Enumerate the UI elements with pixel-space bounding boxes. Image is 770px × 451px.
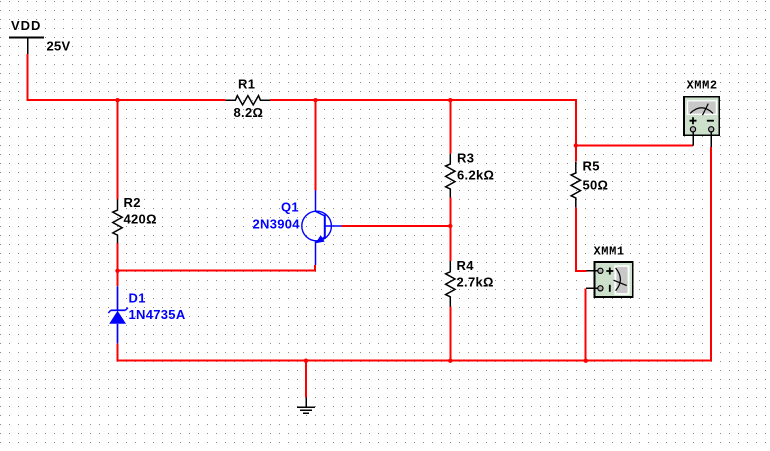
svg-text:50Ω: 50Ω bbox=[583, 178, 609, 193]
wire Q1 collector drop bbox=[315, 100, 317, 190]
junction XMM2 branch bbox=[574, 143, 578, 147]
svg-text:420Ω: 420Ω bbox=[124, 212, 157, 227]
svg-text:VDD: VDD bbox=[11, 18, 41, 33]
junction R4 bottom bbox=[448, 359, 452, 363]
multimeter XMM2 bbox=[684, 79, 719, 148]
multimeter XMM1 bbox=[586, 245, 633, 298]
wire R2 top drop bbox=[117, 100, 119, 199]
wire ground drop bbox=[305, 361, 307, 398]
wire R3 top drop bbox=[449, 100, 451, 153]
wire bottom rail R4 to XMM1 branch bbox=[450, 360, 586, 362]
wire R4 bottom to rail bbox=[449, 307, 451, 361]
resistor R3 6.2kohm bbox=[446, 151, 495, 198]
wire R5 bottom to XMM1 plus bbox=[576, 207, 587, 271]
junction R3 top bbox=[448, 98, 452, 102]
junction R2 top bbox=[115, 98, 119, 102]
junction Q1 collector top bbox=[313, 98, 317, 102]
wire bottom rail XMM1 branch to right corner up to XMM2 bbox=[586, 147, 711, 361]
junction base node bbox=[448, 224, 452, 228]
svg-text:6.2kΩ: 6.2kΩ bbox=[457, 168, 494, 183]
wire VDD to top rail left bbox=[28, 54, 226, 100]
svg-text:R5: R5 bbox=[583, 159, 600, 174]
svg-text:2.7kΩ: 2.7kΩ bbox=[457, 275, 494, 290]
junction XMM1 minus node bbox=[584, 359, 588, 363]
svg-text:Q1: Q1 bbox=[281, 200, 299, 215]
svg-text:R3: R3 bbox=[457, 151, 474, 166]
diode D1 1N4735A zener bbox=[108, 286, 186, 343]
junction emitter node bbox=[115, 269, 119, 273]
svg-text:1N4735A: 1N4735A bbox=[129, 307, 186, 322]
wire XMM1 minus to rail bbox=[585, 288, 587, 360]
resistor R5 50ohm bbox=[571, 159, 608, 208]
wire bottom rail ground to R4 bbox=[306, 360, 450, 362]
svg-text:D1: D1 bbox=[129, 291, 146, 306]
svg-text:R1: R1 bbox=[238, 77, 255, 92]
resistor R2 420ohm bbox=[113, 195, 157, 243]
wire Q1 base to R3/R4 node bbox=[342, 225, 451, 227]
svg-text:2N3904: 2N3904 bbox=[253, 217, 301, 232]
svg-text:25V: 25V bbox=[47, 39, 71, 54]
wire R2 bottom to D1 bbox=[117, 243, 119, 286]
svg-text:R4: R4 bbox=[457, 258, 475, 273]
svg-text:XMM2: XMM2 bbox=[687, 79, 718, 93]
ground bbox=[297, 398, 315, 414]
power VDD bbox=[9, 18, 44, 54]
svg-text:XMM1: XMM1 bbox=[594, 245, 625, 259]
wire D1 bottom to bottom rail bbox=[118, 343, 307, 360]
svg-text:8.2Ω: 8.2Ω bbox=[234, 105, 264, 120]
wire top rail right of R1 to top-right corner down to R5 bbox=[270, 100, 576, 162]
junction ground node bbox=[304, 359, 308, 363]
svg-text:R2: R2 bbox=[124, 195, 141, 210]
resistor R4 2.7kohm bbox=[446, 258, 494, 307]
wire Q1 emitter to R2/D1 node bbox=[118, 265, 316, 270]
transistor Q1 2N3904 bbox=[253, 191, 342, 266]
resistor R1 8.2ohm bbox=[226, 77, 271, 121]
wire R3 bottom to R4 top bbox=[449, 198, 451, 262]
wire R5 node to XMM2 plus bbox=[576, 145, 693, 147]
